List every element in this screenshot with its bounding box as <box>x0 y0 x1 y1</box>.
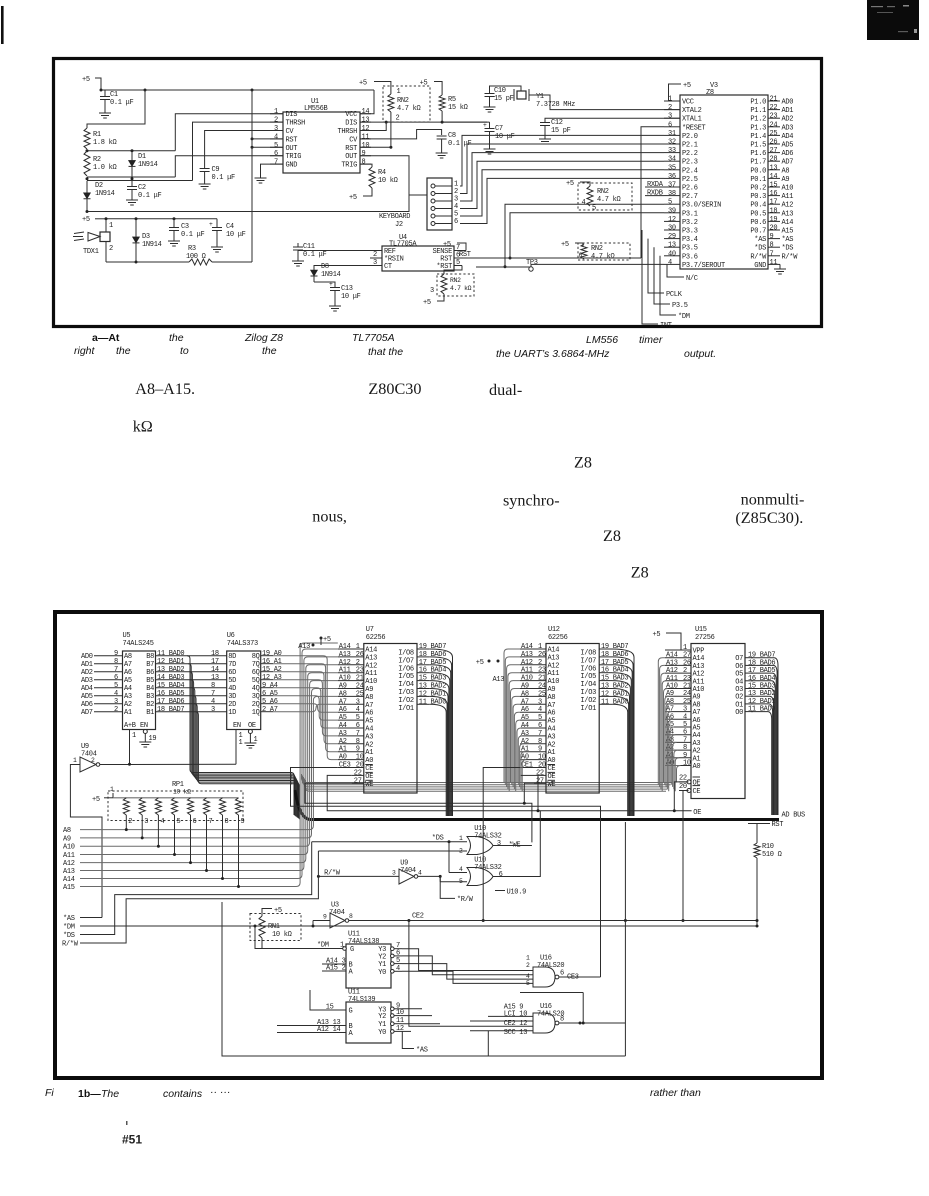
wire bottom rail <box>222 902 625 1056</box>
svg-text:B4: B4 <box>146 685 154 693</box>
resistor RP1-7 <box>204 798 213 872</box>
svg-text:XTAL1: XTAL1 <box>682 116 702 124</box>
wire rail to R1 <box>87 90 145 128</box>
ground below C1 <box>99 110 111 118</box>
svg-text:P3.2: P3.2 <box>682 219 698 227</box>
svg-text:A9: A9 <box>365 686 373 694</box>
svg-text:P1.2: P1.2 <box>750 116 766 124</box>
resistor RP1-6 <box>188 798 197 864</box>
wires U11a outputs to U16a <box>402 949 533 984</box>
net +5 RN2b <box>566 180 590 188</box>
svg-text:*AS: *AS <box>782 236 794 244</box>
SRAM U7 62256 <box>338 626 446 793</box>
svg-text:OUT: OUT <box>345 153 357 161</box>
svg-text:A0: A0 <box>693 763 701 771</box>
wire U1 pin14 VCC <box>360 90 374 114</box>
svg-text:12: 12 <box>362 125 370 133</box>
svg-text:CE: CE <box>548 765 556 773</box>
wire U10b inputs <box>440 842 467 885</box>
svg-text:CE2: CE2 <box>412 913 424 921</box>
svg-text:G: G <box>350 946 354 954</box>
svg-text:5: 5 <box>592 205 596 213</box>
SRAM U12 62256 <box>520 626 628 793</box>
svg-text:8: 8 <box>225 818 229 826</box>
svg-text:B6: B6 <box>146 669 154 677</box>
svg-text:AD0: AD0 <box>782 99 794 107</box>
resistor RP1-8 <box>220 798 229 880</box>
svg-text:P1.6: P1.6 <box>750 150 766 158</box>
svg-text:*AS: *AS <box>416 1047 428 1055</box>
svg-text:CE: CE <box>693 788 701 796</box>
ground below C11 <box>292 258 304 266</box>
svg-text:+5: +5 <box>349 194 357 202</box>
svg-text:I/O7: I/O7 <box>580 657 596 665</box>
svg-text:A+B: A+B <box>124 722 136 730</box>
svg-text:RST: RST <box>286 136 298 144</box>
ground below C7 <box>484 146 496 154</box>
svg-text:OE: OE <box>365 773 373 781</box>
svg-text:74ALS138: 74ALS138 <box>348 938 379 946</box>
svg-text:AD5: AD5 <box>81 693 93 701</box>
svg-text:10 μF: 10 μF <box>341 293 361 301</box>
svg-text:A2: A2 <box>124 701 132 709</box>
svg-text:1: 1 <box>526 955 530 962</box>
svg-text:P2.5: P2.5 <box>682 176 698 184</box>
svg-text:I/O3: I/O3 <box>398 689 414 697</box>
svg-text:D2: D2 <box>95 182 103 190</box>
svg-text:30: 30 <box>668 225 676 233</box>
svg-text:A4: A4 <box>521 722 529 730</box>
svg-text:I/O5: I/O5 <box>398 673 414 681</box>
svg-text:17: 17 <box>211 658 219 666</box>
svg-text:VCC: VCC <box>682 99 694 107</box>
svg-text:A10: A10 <box>521 675 533 683</box>
diode D8 <box>314 263 370 279</box>
svg-text:4: 4 <box>356 706 360 714</box>
ground below C4 <box>211 244 223 252</box>
wire U1 pin7 GND <box>261 164 284 175</box>
svg-text:10: 10 <box>683 760 691 768</box>
svg-text:A10: A10 <box>782 185 794 193</box>
svg-text:7: 7 <box>114 666 118 674</box>
svg-text:2: 2 <box>128 818 132 826</box>
svg-text:synchro-: synchro- <box>503 492 560 510</box>
svg-text:DIS: DIS <box>286 111 298 119</box>
svg-text:AD2: AD2 <box>782 116 794 124</box>
svg-text:4Q: 4Q <box>252 685 260 693</box>
svg-text:*RESET: *RESET <box>682 124 706 132</box>
svg-text:A13: A13 <box>365 654 377 662</box>
svg-text:2: 2 <box>459 848 463 855</box>
svg-text:TRIG: TRIG <box>341 162 357 170</box>
svg-text:11 BAD0: 11 BAD0 <box>748 706 775 714</box>
or-gate U10a 74ALS32 <box>467 825 520 855</box>
svg-text:37: 37 <box>668 182 676 190</box>
svg-text:a—At: a—At <box>92 332 120 344</box>
wire TDX1 rail <box>105 217 218 220</box>
svg-text:4: 4 <box>418 870 422 877</box>
svg-text:*DM: *DM <box>678 313 690 321</box>
svg-text:1Q: 1Q <box>252 709 260 717</box>
wire U1 pin4 RST <box>251 137 284 140</box>
svg-text:I/O3: I/O3 <box>580 689 596 697</box>
svg-text:35: 35 <box>668 164 676 172</box>
svg-text:OE: OE <box>693 779 701 787</box>
svg-text:14: 14 <box>362 108 370 116</box>
svg-text:A11: A11 <box>365 670 377 678</box>
svg-text:AD BUS: AD BUS <box>782 812 806 820</box>
svg-text:I/O2: I/O2 <box>580 697 596 705</box>
svg-text:A9: A9 <box>63 835 71 843</box>
svg-text:5: 5 <box>177 818 181 826</box>
svg-text:0.1 μF: 0.1 μF <box>212 174 236 182</box>
svg-text:R1: R1 <box>93 131 101 139</box>
label *AS at U11b <box>416 1047 428 1055</box>
svg-text:7404: 7404 <box>329 909 345 917</box>
resistor network RN1 <box>250 914 301 949</box>
wire U9 output to EN/DIR <box>100 763 236 766</box>
svg-text:15 BAD3: 15 BAD3 <box>601 675 628 683</box>
resistor R2 <box>84 151 117 176</box>
svg-text:A6: A6 <box>124 669 132 677</box>
svg-text:10 kΩ: 10 kΩ <box>272 931 292 939</box>
svg-text:P1.5: P1.5 <box>750 142 766 150</box>
svg-text:*DS: *DS <box>63 932 75 940</box>
svg-text:G: G <box>349 1008 353 1016</box>
svg-text:+5: +5 <box>653 631 661 639</box>
svg-text:6: 6 <box>356 722 360 730</box>
svg-text:4: 4 <box>396 965 400 973</box>
svg-text:EN: EN <box>140 722 148 730</box>
svg-text:A10: A10 <box>365 678 377 686</box>
svg-text:15 A2: 15 A2 <box>262 666 282 674</box>
wire +5 rail <box>100 89 375 92</box>
svg-text:510 Ω: 510 Ω <box>762 851 782 859</box>
wire *WE net <box>305 783 546 842</box>
figure 1b schematic frame <box>55 612 822 1078</box>
svg-text:A4: A4 <box>365 726 373 734</box>
ground below C2 <box>126 197 138 205</box>
svg-text:1b—: 1b— <box>78 1088 101 1100</box>
svg-text:5: 5 <box>668 199 672 207</box>
svg-text:P3.5: P3.5 <box>682 245 698 253</box>
wire U4 SENSE to +5 <box>443 241 466 251</box>
svg-text:10 μF: 10 μF <box>226 231 246 239</box>
svg-text:AD4: AD4 <box>782 133 794 141</box>
svg-text:P0.1: P0.1 <box>750 176 766 184</box>
svg-text:A14: A14 <box>365 647 377 655</box>
resistor network RN2 pins4-5 <box>578 183 632 213</box>
svg-text:C8: C8 <box>448 132 456 140</box>
label RST net <box>459 251 471 259</box>
svg-text:4: 4 <box>459 866 463 873</box>
svg-text:3: 3 <box>538 698 542 706</box>
svg-text:A12: A12 <box>548 662 560 670</box>
label RST <box>748 821 783 829</box>
svg-text:+5: +5 <box>82 76 90 84</box>
svg-text:B1: B1 <box>146 709 154 717</box>
bus U7 data to AD BUS <box>430 649 453 816</box>
svg-text:18: 18 <box>211 650 219 658</box>
svg-text:10 kΩ: 10 kΩ <box>378 177 398 185</box>
svg-text:15 BAD4: 15 BAD4 <box>157 682 184 690</box>
svg-text:4: 4 <box>582 199 586 207</box>
svg-text:A10: A10 <box>339 675 351 683</box>
svg-text:8: 8 <box>538 738 542 746</box>
svg-text:R/*W: R/*W <box>750 253 767 261</box>
svg-text:I/O8: I/O8 <box>580 650 596 658</box>
svg-text:9: 9 <box>114 650 118 658</box>
svg-text:A1: A1 <box>339 746 347 754</box>
wire J2 pin1 to P2.0 <box>460 135 664 186</box>
svg-text:36: 36 <box>668 173 676 181</box>
svg-text:1: 1 <box>109 222 113 230</box>
wire *RESET from U4 <box>641 127 664 258</box>
svg-text:62256: 62256 <box>548 634 568 642</box>
wire XTAL1 line <box>545 118 680 122</box>
svg-text:4.7 kΩ: 4.7 kΩ <box>597 196 621 204</box>
svg-text:1N914: 1N914 <box>142 241 162 249</box>
svg-text:A3: A3 <box>124 693 132 701</box>
svg-text:6 A5: 6 A5 <box>262 690 278 698</box>
svg-text:nonmulti-: nonmulti- <box>741 491 805 509</box>
signal label *DM <box>63 924 756 932</box>
svg-text:*DS: *DS <box>782 245 794 253</box>
svg-text:C7: C7 <box>495 125 503 133</box>
net +5 RN2a <box>359 80 391 95</box>
svg-text:0.1 μF: 0.1 μF <box>181 231 205 239</box>
svg-text:6Q: 6Q <box>252 669 260 677</box>
svg-text:5: 5 <box>526 980 530 987</box>
svg-text:3Q: 3Q <box>252 693 260 701</box>
svg-text:RN2: RN2 <box>597 188 609 196</box>
svg-text:I/O1: I/O1 <box>398 705 414 713</box>
wire J2 pin6 to P2.5 <box>460 178 664 223</box>
wire U1 pin1 DIS <box>175 114 283 151</box>
EPROM U15 27256 <box>665 626 775 799</box>
svg-text:P0.4: P0.4 <box>750 202 766 210</box>
svg-text:13 BAD2: 13 BAD2 <box>419 683 446 691</box>
svg-text:Z8: Z8 <box>574 454 592 472</box>
svg-text:4: 4 <box>160 818 164 826</box>
wire U5 DIR pin <box>130 730 137 765</box>
svg-text:R4: R4 <box>378 169 386 177</box>
svg-text:3: 3 <box>668 113 672 121</box>
svg-text:P0.7: P0.7 <box>750 228 766 236</box>
svg-text:P3.4: P3.4 <box>682 236 698 244</box>
wire U6 EN pin <box>236 730 243 765</box>
svg-text:I/O7: I/O7 <box>398 657 414 665</box>
svg-text:A3: A3 <box>339 730 347 738</box>
svg-text:+5: +5 <box>359 80 367 88</box>
svg-text:11: 11 <box>362 133 370 141</box>
resistor RP1-3 <box>139 798 148 840</box>
svg-text:U7: U7 <box>366 626 374 634</box>
svg-text:I/O5: I/O5 <box>580 673 596 681</box>
op-amp U1 LM556B <box>270 98 371 173</box>
svg-text:25: 25 <box>770 130 778 138</box>
wire U1 pin6 TRIG <box>175 156 283 177</box>
label RXDA <box>645 181 664 189</box>
svg-text:A4: A4 <box>124 685 132 693</box>
svg-text:RXDB: RXDB <box>647 190 663 198</box>
svg-text:P0.6: P0.6 <box>750 219 766 227</box>
wire U1 pin8 TRIG2 to R4 <box>360 164 372 167</box>
wire U16b inputs <box>407 919 533 1056</box>
svg-text:4D: 4D <box>228 685 236 693</box>
svg-text:A6: A6 <box>365 710 373 718</box>
svg-text:XTAL2: XTAL2 <box>682 107 702 115</box>
ground below C12 <box>539 136 551 144</box>
svg-text:15: 15 <box>770 182 778 190</box>
svg-text:A12: A12 <box>339 659 351 667</box>
svg-text:1D: 1D <box>228 709 236 717</box>
svg-text:OE: OE <box>248 722 256 730</box>
svg-text:A13: A13 <box>298 643 310 651</box>
wire N/C stub <box>667 264 698 283</box>
decoder U11 74LS139 <box>277 989 404 1044</box>
svg-text:1N914: 1N914 <box>138 161 158 169</box>
capacitor C9 <box>200 166 235 182</box>
svg-text:U12: U12 <box>548 626 560 634</box>
svg-text:A4: A4 <box>339 722 347 730</box>
svg-text:22: 22 <box>536 769 544 777</box>
or-gate U10b 74ALS32 <box>467 857 503 886</box>
svg-text:12 BAD1: 12 BAD1 <box>601 690 628 698</box>
svg-text:1: 1 <box>538 643 542 651</box>
svg-text:+: + <box>483 122 487 129</box>
svg-text:A5: A5 <box>548 718 556 726</box>
svg-text:P2.7: P2.7 <box>682 193 698 201</box>
svg-text:1: 1 <box>239 739 243 747</box>
svg-text:7: 7 <box>274 159 278 167</box>
svg-text:8: 8 <box>114 658 118 666</box>
wire RN2d to +5 <box>423 294 444 307</box>
svg-text:38: 38 <box>668 190 676 198</box>
svg-text:+5: +5 <box>683 82 691 90</box>
svg-text:2: 2 <box>274 117 278 125</box>
svg-text:7: 7 <box>209 818 213 826</box>
diode D3 <box>133 219 162 262</box>
svg-text:22: 22 <box>679 775 687 783</box>
svg-text:U5: U5 <box>123 632 131 640</box>
connector J2 KEYBOARD <box>427 178 458 230</box>
wire CE3 vertical link <box>0 0 1 1</box>
wire U16b output <box>559 1022 625 1025</box>
svg-text:A15: A15 <box>63 884 75 892</box>
wire R4 to +5 <box>349 188 372 202</box>
svg-text:RN2: RN2 <box>397 97 409 105</box>
svg-text:0.1 μF: 0.1 μF <box>138 192 162 200</box>
svg-text:*AS: *AS <box>754 236 766 244</box>
svg-text:the: the <box>169 332 184 344</box>
capacitor C4 <box>209 219 246 244</box>
svg-text:EN: EN <box>233 722 241 730</box>
wire U10a output <box>493 845 532 847</box>
ground below C9 <box>199 181 211 189</box>
svg-text:22: 22 <box>354 769 362 777</box>
label U10.9 <box>495 889 526 897</box>
svg-text:A10: A10 <box>548 678 560 686</box>
svg-text:C10: C10 <box>494 87 506 95</box>
wire CE2 vertical to U16b <box>520 822 625 1025</box>
wire U8 out <box>418 875 442 882</box>
wire U16a output <box>559 976 601 978</box>
svg-text:4: 4 <box>538 706 542 714</box>
svg-text:A8: A8 <box>782 167 790 175</box>
svg-text:5: 5 <box>538 714 542 722</box>
svg-text:A13: A13 <box>63 868 75 876</box>
diode D8 symbol <box>311 270 318 282</box>
svg-text:#51: #51 <box>122 1133 142 1147</box>
svg-text:A13: A13 <box>548 654 560 662</box>
svg-text:TP3: TP3 <box>526 259 538 267</box>
svg-text:A8: A8 <box>63 827 71 835</box>
svg-text:+5: +5 <box>443 241 451 249</box>
svg-text:21: 21 <box>538 675 546 683</box>
svg-text:12 BAD1: 12 BAD1 <box>419 690 446 698</box>
svg-text:output.: output. <box>684 348 716 360</box>
svg-text:2: 2 <box>538 659 542 667</box>
svg-text:6: 6 <box>274 150 278 158</box>
svg-text:2: 2 <box>109 245 113 253</box>
svg-text:+5: +5 <box>82 216 90 224</box>
svg-text:the: the <box>116 345 131 357</box>
net +5 RN1 <box>262 907 282 916</box>
svg-text:7: 7 <box>538 730 542 738</box>
svg-text:CT: CT <box>384 263 392 271</box>
svg-text:2Q: 2Q <box>252 701 260 709</box>
wire J2 pin4 to P2.3 <box>460 161 664 208</box>
svg-text:GND: GND <box>754 262 766 270</box>
supervisor U4 TL7705A <box>370 234 641 271</box>
svg-text:24: 24 <box>356 683 364 691</box>
svg-text:7: 7 <box>770 250 774 258</box>
ground below C10 <box>484 104 496 112</box>
figure 1a schematic frame <box>54 59 822 327</box>
svg-text:A7: A7 <box>124 661 132 669</box>
resistor network RN2 pin6 <box>578 243 630 261</box>
svg-text:2: 2 <box>91 757 95 764</box>
wire U11b G route <box>310 990 330 1010</box>
svg-text:VCC: VCC <box>345 111 357 119</box>
bus U12 address fan <box>504 649 520 783</box>
resistor R5 <box>439 95 468 112</box>
svg-text:24: 24 <box>770 121 778 129</box>
svg-text:AD5: AD5 <box>782 142 794 150</box>
svg-text:5Q: 5Q <box>252 677 260 685</box>
capacitor C3 <box>169 219 205 239</box>
wire *DM to U11a G <box>254 925 347 950</box>
svg-text:R5: R5 <box>448 96 456 104</box>
wire long vertical +5 to TDX1 <box>251 90 253 262</box>
svg-text:CE2 12: CE2 12 <box>504 1020 528 1028</box>
wire R/*W to U8 <box>317 870 399 878</box>
svg-text:18 BAD7: 18 BAD7 <box>157 706 184 714</box>
svg-text:KEYBOARD: KEYBOARD <box>379 213 410 221</box>
wire *R/W stub <box>440 876 473 904</box>
wire CE2 to U12/U15 CE <box>482 768 689 923</box>
svg-text:7.3728 MHz: 7.3728 MHz <box>536 101 575 109</box>
wire RW to U10a pin2 <box>318 848 467 855</box>
svg-text:2: 2 <box>356 659 360 667</box>
svg-text:A11: A11 <box>782 193 794 201</box>
svg-text:A0: A0 <box>521 754 529 762</box>
svg-text:4: 4 <box>668 259 672 267</box>
resistor network RN2 pins1-2 <box>383 86 430 123</box>
svg-text:A7: A7 <box>339 698 347 706</box>
svg-text:AD1: AD1 <box>81 661 93 669</box>
